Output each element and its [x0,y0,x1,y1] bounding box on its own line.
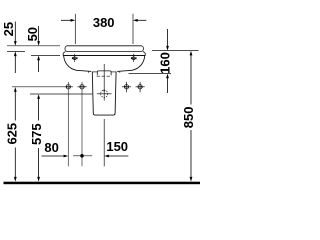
dim 380 extension line right [132,14,134,44]
dim 25 extension line B [7,50,25,52]
dim 850 line with arrows [190,51,193,182]
dim 380 extension line left [74,14,76,44]
dim 625 reference line [12,86,64,88]
centerline lower (150 right extension) [103,119,105,166]
svg-text:25: 25 [1,22,16,36]
dim 50 extension line C [31,55,60,57]
dim 25 arrows [14,22,17,74]
dim 80 line with arrow [42,155,69,158]
dim 160 arrows [166,29,169,93]
svg-text:850: 850 [181,107,196,129]
svg-text:575: 575 [29,123,44,145]
dim 150 line with arrow [104,155,128,158]
dim 380 line right with arrow [133,19,146,22]
drain target symbol [97,90,112,98]
dim 625 line with arrows [14,87,17,182]
centerline upper [103,64,105,101]
rim fixing symbol right [131,54,137,62]
svg-text:50: 50 [25,27,40,41]
siphon cover (shroud) [92,72,116,116]
mounting hole target 3 [122,82,131,92]
washbasin rim band [63,51,145,55]
washbasin bowl outline right [117,56,145,72]
bowl underside segments beside drain hub [92,71,97,73]
floor line [4,182,201,185]
svg-text:80: 80 [44,140,58,155]
dim 160 top reference line [152,50,199,52]
mounting hole target 2 [77,82,86,166]
dim 160 bottom reference line [129,73,172,75]
dim 25 extension line A [7,45,60,47]
rim fixing symbol left [72,54,78,62]
washbasin rim deck (top slab) [65,46,143,52]
floor drain point (dot cross) [73,154,92,158]
drain hub under bowl [97,71,111,75]
drain hub hidden edge (dashed) [97,75,112,77]
bowl underside ticks [88,71,90,73]
dim 380 line left with arrow [61,19,75,22]
dim 575 reference line [30,93,92,95]
mounting hole target 4 [136,82,145,92]
washbasin bowl outline left [64,56,92,72]
svg-text:150: 150 [106,139,128,154]
svg-text:380: 380 [93,15,115,30]
dim 50 arrows [37,26,40,72]
svg-text:625: 625 [4,123,19,145]
svg-text:160: 160 [158,52,173,74]
mounting hole target 1 [64,82,73,166]
dim 575 line with arrows [37,94,40,181]
